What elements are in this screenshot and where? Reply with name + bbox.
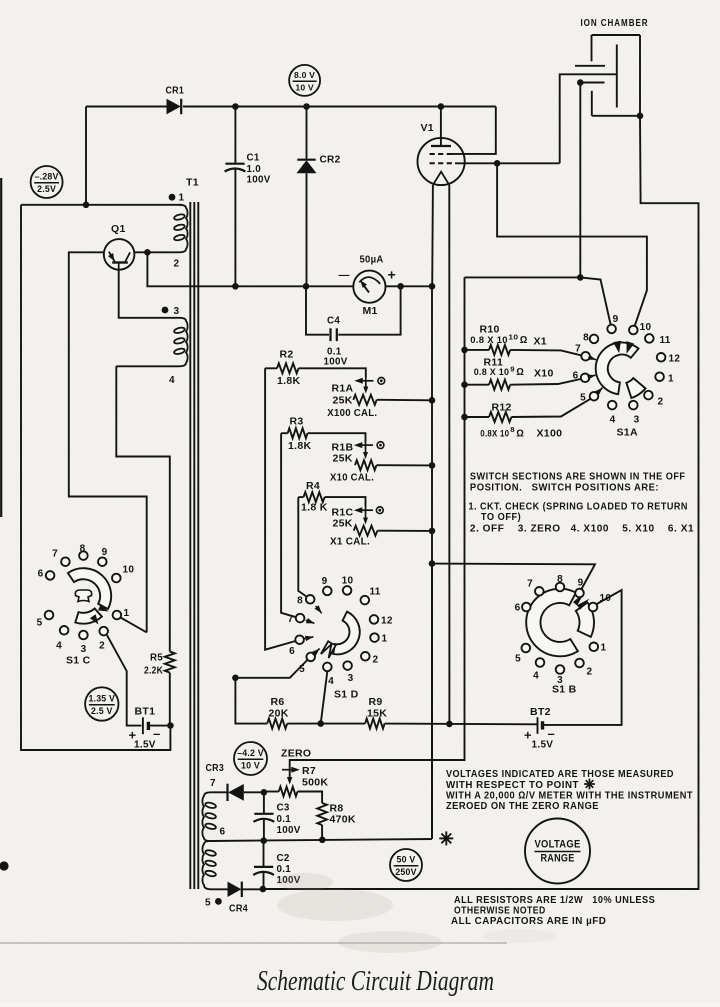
node C2 bottom <box>260 886 267 893</box>
node C1 on rail <box>232 283 239 290</box>
resistor R3 <box>281 432 288 434</box>
wire S1B contact 10 to BT2 <box>543 590 621 725</box>
S1C contact 3 <box>79 631 88 640</box>
wire plate2 down to S1A node <box>579 83 581 278</box>
ion chamber center electrode <box>616 45 618 108</box>
diode CR2 <box>306 107 308 160</box>
wire chamber shell to right rail <box>263 116 699 889</box>
wire S1C contact 2 to BT1 <box>107 635 142 726</box>
T1 secondary winding pins 3-4 <box>116 318 187 367</box>
node CR2 top <box>303 103 310 110</box>
S1D contact 4 <box>323 663 332 672</box>
S1C contact 10 <box>112 574 121 583</box>
S1B contact 8 <box>556 583 565 592</box>
scan edge artifacts <box>0 178 2 517</box>
S1A contact 10 <box>629 326 638 335</box>
potentiometer R7 zero adjust <box>279 787 298 797</box>
resistor R10 <box>465 349 490 351</box>
S1A contact 11 <box>645 334 654 343</box>
node V1 plate <box>438 103 445 110</box>
wire grid2 node to S1A contact 10 <box>497 163 647 330</box>
node column S1B wire <box>429 560 436 567</box>
wire pin4 to R5 <box>116 366 170 651</box>
wire Q1 collector to T1 pin 2 <box>134 251 150 253</box>
S1C contact 1 <box>113 611 122 620</box>
potentiometer R1B <box>365 442 367 453</box>
S1A contact 4 <box>608 401 617 410</box>
wire S1D contact 5 to C1 column <box>235 660 307 678</box>
transformer T1 core <box>189 202 191 889</box>
T1 pin 3 polarity dot <box>162 307 169 314</box>
V1 plate <box>440 107 442 147</box>
diode CR1 <box>167 99 181 114</box>
potentiometer R1A <box>365 377 367 387</box>
node R1B out <box>429 462 436 469</box>
wire S1C contact 1 to Q1 emitter line <box>121 618 147 633</box>
S1A contact 6 <box>581 374 590 383</box>
ion chamber plate 2 <box>580 82 604 84</box>
voltage range circle <box>525 819 590 884</box>
wire T1 pin 7 to CR3 <box>211 791 227 793</box>
T1 filament winding pins 7-6-5 <box>202 792 211 841</box>
resistor R5 <box>165 652 175 673</box>
S1B contact 10 <box>589 603 598 612</box>
wire left -28V loop <box>85 107 87 205</box>
S1D contact 12 <box>370 615 379 624</box>
node CR3 out <box>261 789 268 796</box>
wire S1D contact 4 down <box>321 672 328 724</box>
resistor R4 <box>298 496 303 498</box>
S1A contact 1 <box>655 372 664 381</box>
capacitor C1 <box>234 107 236 164</box>
node filament right leg <box>446 721 453 728</box>
S1D contact 7 <box>296 614 305 623</box>
capacitor C3 <box>263 792 265 814</box>
capacitor C2 <box>263 841 265 867</box>
T1 pin 1 polarity dot <box>169 194 176 201</box>
wire meter rail y=286.3 <box>147 252 353 286</box>
V1 grid 2 dashed <box>430 162 456 164</box>
V1 filament <box>433 172 449 185</box>
S1D contact 6 <box>295 635 304 644</box>
node chamber/S1A <box>577 274 584 281</box>
wire T1 pin 5 to CR4 <box>211 888 228 890</box>
S1D contact 10 <box>343 586 352 595</box>
voltage label 1.35V/2.5V <box>85 687 118 720</box>
S1C contact 7 <box>61 557 70 566</box>
node C1 top <box>232 103 239 110</box>
rotary switch S1C rotor <box>68 568 111 609</box>
node contact4 <box>317 720 324 727</box>
wire V1 filament left leg <box>431 185 434 286</box>
S1D contact 2 <box>361 652 370 661</box>
S1A contact 5 <box>590 392 599 401</box>
wire R3 to S1D contact 7 <box>281 433 296 617</box>
S1A contact 7 <box>581 352 590 361</box>
wire chamber center electrode drop <box>560 74 617 163</box>
node R11 tap <box>461 381 468 388</box>
resistor R8 <box>317 803 327 825</box>
wire top plate rail y=106.5 <box>86 106 167 108</box>
diode CR3 <box>226 784 228 801</box>
S1C contact 6 <box>46 571 55 580</box>
S1B contact 4 <box>536 658 545 667</box>
voltage label -.28V/2.5V <box>31 166 63 198</box>
S1A contact 2 <box>644 391 653 400</box>
rotary switch S1D rotor <box>333 612 360 655</box>
S1C contact 5 <box>45 611 54 620</box>
T1 primary winding pins 1-2 <box>150 205 188 253</box>
wire R2 to S1D contact 6 <box>265 368 295 649</box>
wire CR3 node to R7 <box>264 791 279 793</box>
V1 grid 1 dashed <box>430 153 456 155</box>
rotary switch S1A rotor <box>596 342 639 394</box>
wire S1A node down to R7 wiper <box>290 277 465 779</box>
ion chamber plate 1 <box>575 65 605 67</box>
resistor R6 <box>267 719 287 729</box>
S1C contact 4 <box>60 626 69 635</box>
meter M1 50uA <box>353 271 385 303</box>
wire rail corner down to grid1 <box>451 107 496 154</box>
node R10 tap <box>461 347 468 354</box>
S1C contact 8 <box>79 551 88 560</box>
resistor R2 <box>265 367 277 369</box>
S1A wiper arrows at contacts 7 6 5 <box>590 358 596 360</box>
diode CR4 <box>228 882 242 897</box>
resistor R9 <box>365 719 385 729</box>
wire Q1 emitter to S1C <box>69 252 147 632</box>
node CR2/C4/meter on rail <box>303 283 310 290</box>
potentiometer R1C <box>365 507 367 518</box>
S1C rotor center mark <box>75 590 91 602</box>
voltage label 50V/250V <box>390 849 422 881</box>
S1B contact 3 <box>556 665 565 674</box>
node filament left leg on rail <box>429 283 436 290</box>
S1D contact 9 <box>323 587 332 596</box>
wire R1 column to S1B <box>432 564 595 589</box>
S1A contact 3 <box>629 401 638 410</box>
node R12 tap <box>461 414 468 421</box>
resistor R11 <box>465 384 490 386</box>
wire pin6 rail up column to S1B node <box>431 564 433 839</box>
node C4 right <box>397 283 404 290</box>
S1B contact 9 <box>575 589 584 598</box>
S1D contact 8 <box>306 595 315 604</box>
S1D contact 1 <box>370 633 379 642</box>
S1D contact 11 <box>361 596 370 605</box>
resistor R12 <box>465 416 490 418</box>
S1A contact 8 <box>590 335 599 344</box>
voltage label -4.2V/10V <box>234 742 267 775</box>
S1B contact 7 <box>535 587 544 596</box>
S1B contact 1 <box>590 643 599 652</box>
wire grid2 to chamber electrode <box>455 162 560 164</box>
star point marker <box>439 837 453 839</box>
S1C contact 9 <box>98 557 107 566</box>
node pin2/collector <box>144 249 151 256</box>
node R1C out <box>429 528 436 535</box>
node chamber shell bottom <box>637 113 644 120</box>
node R8 bottom <box>319 837 326 844</box>
node R1A out <box>429 397 436 404</box>
wire R4 to S1D contact 8 <box>298 497 306 596</box>
S1B contact 2 <box>575 659 584 668</box>
wire Q1 base to T1 pin 3 <box>119 270 179 318</box>
S1A contact 9 <box>607 325 616 334</box>
node plate2 <box>577 79 584 86</box>
transistor Q1 <box>104 239 135 270</box>
capacitor C4 <box>306 286 329 334</box>
wire C1 column to R6 <box>235 678 267 724</box>
node grid2 <box>494 160 501 167</box>
voltage label 8.0V/10V <box>289 65 320 96</box>
node -28V junction <box>83 202 90 209</box>
rotary switch S1B rotor <box>526 589 578 657</box>
node contact5/C1 column <box>232 675 239 682</box>
ion chamber shell <box>591 35 593 61</box>
S1D contact 3 <box>343 661 352 670</box>
wire S1A rotor node y=277.4 <box>465 277 612 329</box>
S1C contact 2 <box>99 627 108 636</box>
wire pin6 rail <box>211 839 432 841</box>
S1D wiper arrows at contacts 8 7 6 5 <box>316 606 322 613</box>
S1B contact 6 <box>522 603 531 612</box>
S1A contact 12 <box>657 353 666 362</box>
wire to T1 pin 1 <box>21 204 182 206</box>
triode V1 <box>418 138 465 185</box>
wire V1 filament right leg <box>448 185 450 724</box>
S1B contact 5 <box>522 644 531 653</box>
node BT1/R5 <box>167 722 174 729</box>
S1D contact 5 <box>306 653 315 662</box>
node C3 bottom <box>260 837 267 844</box>
